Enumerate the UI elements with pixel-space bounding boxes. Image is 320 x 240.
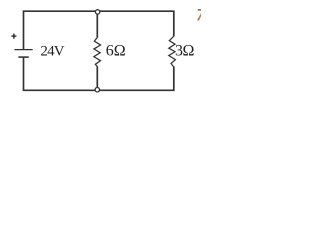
node B bottom junction open circle	[95, 88, 99, 92]
resistor 3ohm zigzag	[169, 36, 176, 66]
wire right lower lead	[173, 66, 175, 91]
resistor 6ohm zigzag	[94, 37, 101, 67]
artifact: cropped colored icon fragment top-right, orange diagonal stroke	[198, 13, 202, 20]
artifact: cropped glyph fragment top-right, dark dash	[198, 9, 202, 11]
wire bottom (node B rail)	[23, 89, 175, 91]
node A top junction open circle	[95, 10, 99, 14]
battery 24V positive plate (long)	[14, 49, 32, 51]
wire left upper lead to battery positive plate	[23, 11, 25, 50]
svg-text:6Ω: 6Ω	[106, 42, 126, 59]
svg-text:24V: 24V	[40, 43, 64, 59]
wire top (node A rail)	[23, 10, 175, 12]
wire middle branch lower lead	[96, 67, 98, 89]
wire right upper lead	[173, 11, 175, 37]
wire middle branch upper lead	[96, 13, 98, 37]
battery polarity plus sign	[11, 34, 16, 39]
battery 24V negative plate (short)	[18, 56, 28, 58]
wire left lower lead from battery negative plate	[23, 57, 25, 91]
artifact: blue tint on fragment lower tip	[198, 18, 199, 20]
svg-text:3Ω: 3Ω	[175, 42, 195, 59]
